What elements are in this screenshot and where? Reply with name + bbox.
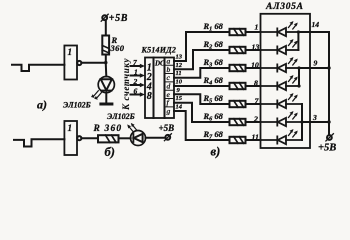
svg-text:1: 1 xyxy=(134,68,138,77)
segment LED row1 xyxy=(261,21,299,36)
pin 14 wire xyxy=(298,31,329,33)
svg-text:9: 9 xyxy=(314,59,318,68)
svg-text:10: 10 xyxy=(176,79,183,86)
resistor R2 68 xyxy=(230,47,246,53)
circuit b) input pulse xyxy=(14,139,64,146)
common bus rows1-2 xyxy=(297,32,299,50)
resistor R7 68 xyxy=(230,137,246,143)
svg-text:14: 14 xyxy=(176,104,183,111)
svg-text:ЭЛ102Б: ЭЛ102Б xyxy=(63,101,91,110)
inversion bubble xyxy=(77,61,81,65)
svg-text:R2 68: R2 68 xyxy=(203,39,224,51)
resistor R5 68 xyxy=(230,101,246,107)
segment LED row2 xyxy=(261,39,299,54)
svg-text:1: 1 xyxy=(255,23,259,32)
svg-text:13: 13 xyxy=(252,42,260,51)
ground xyxy=(101,103,112,106)
wire gate output to node xyxy=(81,62,104,64)
IC output wire c pin11 xyxy=(174,68,230,78)
display AL305A body xyxy=(261,14,311,148)
svg-text:9: 9 xyxy=(177,87,181,94)
svg-text:К514ИД2: К514ИД2 xyxy=(141,46,177,55)
emission arrows (a) xyxy=(97,93,102,99)
svg-text:в): в) xyxy=(211,145,221,159)
svg-text:R4 68: R4 68 xyxy=(203,75,224,87)
svg-text:а): а) xyxy=(37,98,47,112)
resistor R 360 (b) xyxy=(98,135,119,142)
svg-text:2: 2 xyxy=(253,114,258,123)
+5V rail xyxy=(328,32,330,135)
svg-text:R: R xyxy=(93,124,100,134)
segment LED row4 xyxy=(261,75,300,90)
svg-text:g: g xyxy=(167,107,171,116)
IC output wire g pin14 xyxy=(174,111,230,140)
IC output wire e pin9 xyxy=(174,94,230,104)
svg-text:11: 11 xyxy=(176,70,182,77)
LED VD2 EL102B xyxy=(131,131,146,146)
IC output wire a pin13 xyxy=(174,32,230,61)
bus junction dots xyxy=(297,30,300,33)
svg-text:13: 13 xyxy=(176,54,183,61)
IC output wire b pin12 xyxy=(174,50,230,69)
wire LED to ground xyxy=(105,93,107,103)
svg-text:+5В: +5В xyxy=(159,123,175,133)
svg-text:360: 360 xyxy=(110,43,125,53)
wire LED to +5V connector (shared with IC) xyxy=(146,137,166,139)
connector +5V (b / IC) xyxy=(165,135,170,140)
svg-text:12: 12 xyxy=(176,62,183,69)
svg-text:1: 1 xyxy=(68,47,73,57)
svg-text:10: 10 xyxy=(251,60,259,69)
common bus rows3-5 xyxy=(298,68,300,86)
svg-text:R5 68: R5 68 xyxy=(203,93,224,105)
node junction xyxy=(104,61,107,64)
IC input pin 7 xyxy=(131,65,141,67)
IC input pin 2 xyxy=(131,84,141,86)
svg-text:1: 1 xyxy=(68,123,73,133)
svg-text:14: 14 xyxy=(312,20,320,29)
rail connector +5V xyxy=(327,135,332,140)
gate D2 (inverter "1") xyxy=(64,121,77,155)
svg-text:+5В: +5В xyxy=(109,13,128,24)
LED VD1 EL102B xyxy=(98,77,114,93)
svg-text:R6 68: R6 68 xyxy=(203,111,224,123)
svg-text:360: 360 xyxy=(104,124,123,134)
display segment LEDs xyxy=(261,21,303,144)
svg-text:АЛ305А: АЛ305А xyxy=(265,2,304,12)
IC U1 body xyxy=(145,58,174,119)
svg-text:R3 68: R3 68 xyxy=(203,57,224,69)
svg-text:2: 2 xyxy=(133,77,138,86)
segment LED row7 xyxy=(261,129,303,144)
svg-text:R1 68: R1 68 xyxy=(203,21,224,33)
svg-text:+5В: +5В xyxy=(318,143,336,154)
svg-text:DC: DC xyxy=(154,60,165,68)
svg-text:R7 68: R7 68 xyxy=(203,129,224,141)
pin 3 wire xyxy=(302,121,329,123)
circuit a) input pulse xyxy=(12,65,64,71)
segment LED row3 xyxy=(261,57,300,72)
svg-text:б): б) xyxy=(105,145,115,159)
resistor R6 68 xyxy=(230,119,246,125)
svg-text:15: 15 xyxy=(176,95,183,102)
svg-text:11: 11 xyxy=(252,132,259,141)
segment LED row6 xyxy=(261,111,303,126)
wire node up to resistor xyxy=(105,55,107,63)
svg-text:6: 6 xyxy=(134,87,138,96)
resistor R4 68 xyxy=(230,83,246,89)
svg-text:8: 8 xyxy=(254,78,258,87)
connector +5V (a) xyxy=(102,15,107,20)
svg-text:7: 7 xyxy=(133,58,137,67)
common bus rows6-7 xyxy=(301,104,303,140)
resistor R1 68 xyxy=(230,29,246,35)
segment LED row5 xyxy=(261,93,303,108)
IC output wire d pin10 xyxy=(174,85,230,87)
svg-text:3: 3 xyxy=(312,113,317,122)
IC letter cell separators xyxy=(165,65,175,107)
gate D1 (inverter "1") xyxy=(64,46,77,80)
svg-text:ЭЛ102Б: ЭЛ102Б xyxy=(107,112,135,121)
emission arrows (b) xyxy=(129,126,133,131)
resistor R 360 (a) xyxy=(102,36,109,55)
pin 9 wire xyxy=(299,67,329,69)
inversion bubble xyxy=(77,136,81,140)
wire resistor to +5V connector xyxy=(105,21,107,36)
wire resistor to LED xyxy=(119,137,131,139)
wire node down to LED xyxy=(105,64,108,76)
wire gate to resistor xyxy=(81,137,98,139)
IC output wire f pin15 xyxy=(174,103,230,122)
svg-text:8: 8 xyxy=(147,91,152,102)
IC input pin 6 xyxy=(131,94,141,96)
IC input pin 1 xyxy=(131,75,141,77)
resistor R3 68 xyxy=(230,65,246,71)
